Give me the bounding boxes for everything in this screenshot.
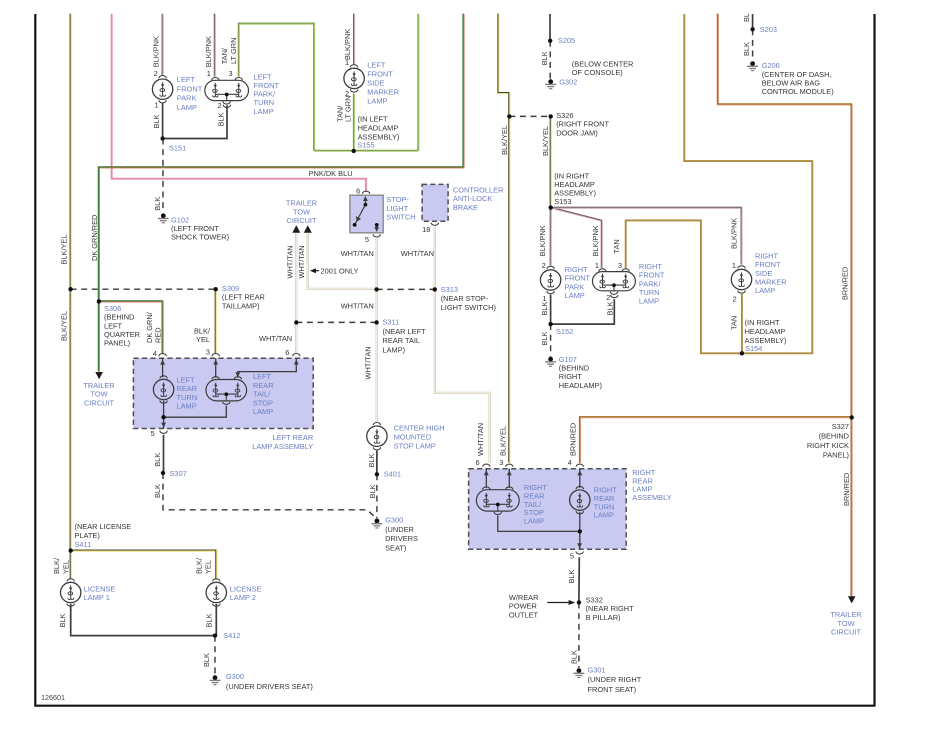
svg-text:SWITCH: SWITCH	[386, 212, 415, 221]
svg-text:LAMP: LAMP	[253, 407, 273, 416]
ground G302	[545, 79, 556, 88]
wire DK GRN/RED S306 down to trailer tow circuit	[97, 301, 100, 372]
svg-text:PANEL): PANEL)	[104, 339, 130, 348]
ground G301	[574, 668, 585, 677]
note G206 CENTER OF DASH	[762, 61, 834, 96]
svg-text:BRN/RED: BRN/RED	[841, 267, 850, 300]
svg-text:(NEAR LICENSE: (NEAR LICENSE	[75, 522, 132, 531]
svg-text:S332: S332	[586, 595, 603, 604]
wire BLK dashed S332 to ground G301	[578, 603, 580, 669]
svg-text:WHT/TAN: WHT/TAN	[476, 423, 485, 456]
wire TAN right front park/turn terminal 3 to S154	[626, 220, 742, 353]
label LEFT FRONT SIDE MARKER LAMP	[367, 61, 399, 106]
svg-text:STOP LAMP: STOP LAMP	[394, 442, 436, 451]
svg-text:YEL: YEL	[204, 560, 213, 574]
label LICENSE LAMP 1	[84, 584, 116, 602]
svg-text:2: 2	[218, 101, 222, 110]
left rear assembly terminal arcs 4 3 6 5	[159, 354, 166, 357]
wire BLK feed to S205	[549, 14, 551, 41]
wire BLK right front lamps to S152	[551, 295, 615, 325]
svg-text:YEL: YEL	[196, 335, 210, 344]
svg-text:(UNDER RIGHT: (UNDER RIGHT	[588, 675, 642, 684]
svg-text:LAMP: LAMP	[254, 107, 274, 116]
svg-text:BLK: BLK	[540, 51, 549, 65]
label RIGHT REAR TURN LAMP	[594, 486, 617, 520]
wire BLK/YEL left feed from top to S411	[69, 13, 72, 550]
note G301 UNDER RIGHT FRONT SEAT	[588, 665, 642, 694]
svg-text:LEFT: LEFT	[177, 75, 196, 84]
svg-text:BRN/RED: BRN/RED	[569, 423, 578, 456]
svg-text:LAMP: LAMP	[639, 297, 659, 306]
left rear assembly internal bus to terminal 5	[164, 406, 227, 417]
svg-text:(BEHIND: (BEHIND	[819, 432, 849, 441]
label STOP-LIGHT SWITCH	[386, 195, 415, 221]
note G300 UNDER DRIVERS SEAT center	[385, 515, 418, 552]
svg-text:3: 3	[206, 348, 210, 357]
splice S313	[433, 287, 437, 291]
label LEFT REAR TURN LAMP	[177, 376, 198, 411]
right rear assembly terminal arcs 6 3 4 5	[483, 464, 490, 467]
svg-text:DRIVERS: DRIVERS	[385, 534, 418, 543]
svg-text:HEADLAMP: HEADLAMP	[745, 327, 786, 336]
splice S311	[374, 320, 378, 324]
svg-text:REAR: REAR	[253, 381, 274, 390]
wire BLK/YEL S326 to S153	[549, 116, 552, 208]
svg-text:BLK: BLK	[368, 484, 377, 498]
wire WHT/TAN trailer tow 2001-only branch	[308, 233, 377, 289]
wire BLK dashed S203 to ground G206	[752, 29, 754, 61]
svg-text:TAIL/: TAIL/	[253, 390, 271, 399]
svg-text:(IN RIGHT: (IN RIGHT	[745, 318, 780, 327]
svg-text:BLK/PNK: BLK/PNK	[152, 36, 161, 67]
note S311 NEAR LEFT REAR TAIL LAMP	[383, 318, 427, 355]
note G107 BEHIND RIGHT HEADLAMP	[559, 355, 602, 390]
svg-text:(NEAR RIGHT: (NEAR RIGHT	[586, 604, 635, 613]
svg-text:G300: G300	[385, 515, 403, 524]
svg-text:PNK/DK BLU: PNK/DK BLU	[309, 169, 353, 178]
node WHT/TAN at S311 link	[294, 320, 298, 324]
label CENTER HIGH MOUNTED STOP LAMP	[394, 423, 445, 450]
note BELOW CENTER OF CONSOLE	[572, 60, 634, 78]
note 2001 ONLY with pointer arrow	[313, 270, 319, 272]
lamp RIGHT REAR TAIL/STOP LAMP	[476, 487, 519, 515]
wire TAN S154 to top feed	[684, 14, 812, 353]
svg-text:TOW: TOW	[837, 619, 854, 628]
svg-text:2: 2	[154, 69, 158, 78]
ground G102	[158, 213, 169, 222]
svg-text:BLK: BLK	[567, 569, 576, 583]
label LICENSE LAMP 2	[230, 584, 262, 602]
wire BLK dashed S307 to ground G300	[163, 473, 374, 516]
svg-text:S307: S307	[170, 469, 187, 478]
svg-text:FRONT SEAT): FRONT SEAT)	[588, 685, 637, 694]
svg-text:BLK: BLK	[367, 453, 376, 467]
splice S205	[548, 39, 552, 43]
svg-text:S152: S152	[556, 327, 573, 336]
svg-text:BLK: BLK	[540, 331, 549, 345]
svg-text:LAMP: LAMP	[177, 103, 197, 112]
svg-text:2001 ONLY: 2001 ONLY	[321, 266, 359, 275]
wire TAN/LT GRN right riser from top	[417, 13, 420, 150]
svg-text:TAILLAMP): TAILLAMP)	[222, 301, 260, 310]
svg-text:4: 4	[568, 458, 572, 467]
dashed splice link S313	[377, 288, 435, 290]
terminal 2 arc left front park/turn	[223, 105, 230, 108]
left rear assembly internal wire terminal 3 to tail/stop left filament	[215, 358, 217, 378]
splice S309	[214, 287, 218, 291]
wire PNK/DK BLU feed to stop-light switch pin 6	[111, 13, 366, 191]
note S332 NEAR RIGHT B PILLAR	[586, 595, 635, 622]
splice S153	[549, 205, 553, 209]
lamp RIGHT REAR TURN LAMP	[570, 486, 590, 513]
svg-text:HEADLAMP): HEADLAMP)	[559, 381, 602, 390]
svg-text:S327: S327	[832, 422, 849, 431]
wire BLK dashed S412 to ground G300 under drivers seat	[214, 636, 216, 675]
arrow trailer tow circuit left pair	[292, 225, 300, 233]
svg-text:WHT/TAN: WHT/TAN	[259, 334, 292, 343]
svg-text:DK GRN/RED: DK GRN/RED	[90, 215, 99, 261]
svg-text:S313: S313	[441, 285, 458, 294]
junction inside left rear assembly	[161, 415, 165, 419]
svg-text:2: 2	[733, 295, 737, 304]
note S205 / G302	[558, 36, 575, 45]
note S327 BEHIND RIGHT KICK PANEL	[807, 422, 849, 459]
right rear assembly internal wire terminal 4 to turn lamp	[579, 469, 581, 549]
svg-text:MOUNTED: MOUNTED	[394, 433, 431, 442]
svg-text:OF CONSOLE): OF CONSOLE)	[572, 68, 623, 77]
svg-text:2: 2	[542, 261, 546, 270]
splice S401	[375, 472, 379, 476]
svg-text:SHOCK TOWER): SHOCK TOWER)	[171, 233, 229, 242]
svg-text:G300: G300	[226, 672, 244, 681]
splice S152	[548, 322, 552, 326]
svg-text:BLK: BLK	[58, 613, 67, 627]
svg-text:3: 3	[618, 261, 622, 270]
label TRAILER TOW CIRCUIT top	[286, 199, 317, 225]
svg-text:S151: S151	[169, 144, 186, 153]
arrow to trailer tow circuit (left)	[95, 372, 103, 379]
left rear assembly internal wire terminal 4 to turn lamp	[163, 358, 164, 428]
svg-text:5: 5	[365, 235, 369, 244]
svg-text:LEFT: LEFT	[367, 61, 386, 70]
wire WHT/TAN trailer tow left branch to left rear terminal 6	[295, 233, 297, 354]
left rear lamp assembly box	[133, 358, 313, 428]
svg-text:CENTER HIGH: CENTER HIGH	[394, 423, 445, 432]
wire TAN/LT GRN side marker terminal 2 to S155	[352, 93, 355, 150]
svg-text:BLK/: BLK/	[52, 557, 61, 574]
svg-text:PLATE): PLATE)	[75, 531, 100, 540]
wire BLK/YEL S309 to left rear terminal 3	[214, 289, 217, 355]
svg-text:(NEAR STOP-: (NEAR STOP-	[441, 294, 489, 303]
wire BRN/RED S327 to right rear terminal 4	[580, 417, 852, 463]
wire BLK feed to S203	[752, 14, 754, 29]
wire BLK/PNK S153 to right front park lamp terminal 2	[549, 207, 552, 266]
svg-text:LAMP 1: LAMP 1	[84, 593, 110, 602]
svg-text:G302: G302	[559, 78, 577, 87]
svg-text:S411: S411	[75, 540, 92, 549]
svg-text:1: 1	[732, 261, 736, 270]
svg-text:WHT/TAN: WHT/TAN	[341, 302, 374, 311]
note S326 RIGHT FRONT DOOR JAM	[556, 111, 609, 137]
svg-text:5: 5	[570, 552, 574, 561]
svg-text:G301: G301	[588, 665, 606, 674]
splice S154	[740, 351, 744, 355]
svg-text:PANEL): PANEL)	[823, 450, 849, 459]
label TRAILER TOW CIRCUIT left	[83, 381, 114, 408]
wire BLK dashed S151 to ground G102	[162, 139, 164, 213]
note S309 LEFT REAR TAILLAMP	[222, 284, 265, 311]
svg-text:BLK/YEL: BLK/YEL	[499, 426, 508, 456]
node WHT/TAN at S313 link	[374, 287, 378, 291]
label TRAILER TOW CIRCUIT right	[830, 610, 861, 637]
svg-text:SIDE: SIDE	[367, 79, 384, 88]
svg-text:S154: S154	[745, 344, 762, 353]
svg-text:LAMP): LAMP)	[383, 346, 406, 355]
svg-text:ASSEMBLY: ASSEMBLY	[632, 493, 671, 502]
controller anti-lock brake box U1	[422, 184, 448, 221]
arrow to trailer tow circuit (right)	[848, 596, 856, 603]
note NEAR LICENSE PLATE S411	[75, 522, 132, 549]
ground G107	[545, 357, 556, 366]
wire BLK/PNK to left front park lamp terminal 2	[161, 13, 164, 75]
svg-text:1: 1	[155, 100, 159, 109]
svg-text:SEAT): SEAT)	[385, 544, 406, 553]
left rear assembly internal wire terminal 6 to tail/stop right filament	[238, 358, 296, 378]
svg-text:DOOR JAM): DOOR JAM)	[556, 128, 597, 137]
svg-text:LAMP: LAMP	[755, 286, 775, 295]
svg-text:(LEFT REAR: (LEFT REAR	[222, 293, 265, 302]
svg-text:S412: S412	[223, 631, 240, 640]
dashed splice link S326	[509, 115, 550, 117]
wire WHT/TAN stop-light switch pin 5 to S311 to center stop lamp	[376, 239, 378, 422]
svg-text:LAMP ASSEMBLY: LAMP ASSEMBLY	[252, 442, 313, 451]
svg-text:BLK/YEL: BLK/YEL	[500, 125, 509, 155]
svg-text:S401: S401	[384, 470, 401, 479]
svg-text:3: 3	[499, 458, 503, 467]
lamp LEFT FRONT SIDE MARKER LAMP	[344, 65, 364, 92]
svg-text:BLK/YEL: BLK/YEL	[59, 311, 68, 341]
controller terminal arc 18	[431, 223, 438, 226]
svg-text:(NEAR LEFT: (NEAR LEFT	[383, 327, 427, 336]
node BLK/YEL riser at S326 link	[507, 114, 511, 118]
wire BLK dashed S401 to ground G300	[376, 474, 378, 518]
lamp LICENSE LAMP 2	[206, 579, 226, 606]
wire BLK left front park lamp 1 / park-turn 2 to S151	[163, 103, 227, 138]
label RIGHT FRONT PARK LAMP	[565, 265, 591, 300]
page top crop	[0, 0, 934, 13]
note G102 LEFT FRONT SHOCK TOWER	[171, 215, 229, 241]
wire WHT/TAN controller pin 18 through S313 to right rear terminal 6	[435, 227, 490, 463]
svg-text:BLK/PNK: BLK/PNK	[591, 225, 600, 256]
svg-text:PARK: PARK	[177, 94, 197, 103]
wire BLK/YEL middle riser to right rear terminal 3	[498, 13, 509, 462]
svg-text:YEL: YEL	[61, 560, 70, 574]
stop-light switch box	[350, 195, 383, 233]
svg-text:BLK: BLK	[153, 484, 162, 498]
svg-text:REAR TAIL: REAR TAIL	[383, 336, 421, 345]
svg-text:S203: S203	[760, 25, 777, 34]
svg-text:WHT/TAN: WHT/TAN	[364, 346, 373, 379]
label RIGHT REAR TAIL/STOP LAMP	[524, 483, 547, 525]
wire label BLK/ YEL left rear term3	[194, 327, 211, 344]
svg-text:BLK: BLK	[153, 197, 162, 211]
splice S412	[213, 633, 217, 637]
svg-text:(UNDER DRIVERS SEAT): (UNDER DRIVERS SEAT)	[226, 682, 313, 691]
svg-text:BLK: BLK	[540, 301, 549, 315]
note IN RIGHT HEADLAMP ASSEMBLY S154	[745, 318, 787, 345]
svg-text:BLK: BLK	[216, 112, 225, 126]
svg-text:LAMP: LAMP	[524, 516, 544, 525]
svg-text:LAMP: LAMP	[565, 291, 585, 300]
svg-text:BLK: BLK	[202, 653, 211, 667]
svg-text:HEADLAMP: HEADLAMP	[358, 124, 399, 133]
lamp LEFT REAR TURN LAMP	[153, 376, 173, 403]
svg-text:LAMP: LAMP	[177, 401, 197, 410]
svg-text:BRAKE: BRAKE	[453, 203, 478, 212]
svg-text:3: 3	[229, 69, 233, 78]
svg-text:18: 18	[422, 225, 430, 234]
terminal 2 arc right front park/turn	[611, 295, 618, 298]
right rear lamp assembly box	[469, 469, 627, 549]
svg-text:LAMP: LAMP	[367, 97, 387, 106]
svg-text:RIGHT KICK: RIGHT KICK	[807, 441, 849, 450]
svg-text:126601: 126601	[41, 693, 65, 702]
svg-text:WHT/TAN: WHT/TAN	[297, 245, 306, 278]
stop-light switch S1 internals	[355, 197, 377, 230]
lamp RIGHT FRONT PARK LAMP	[540, 266, 560, 293]
svg-text:LT GRN: LT GRN	[229, 38, 238, 64]
label LEFT REAR LAMP ASSEMBLY	[252, 433, 313, 451]
right rear assembly internal wires terminals 6 and 3	[486, 469, 509, 488]
svg-text:6: 6	[475, 458, 479, 467]
junction inside right rear assembly	[578, 529, 582, 533]
svg-text:S205: S205	[558, 36, 575, 45]
splice S327	[850, 415, 854, 419]
svg-text:BLK: BLK	[152, 114, 161, 128]
svg-text:LT GRN: LT GRN	[343, 96, 352, 122]
label LEFT FRONT PARK/TURN LAMP	[254, 72, 280, 115]
lamp LEFT FRONT PARK LAMP	[152, 76, 172, 103]
svg-text:WHT/TAN: WHT/TAN	[401, 249, 434, 258]
svg-text:BLK/: BLK/	[194, 557, 203, 574]
svg-text:TAN: TAN	[730, 316, 739, 330]
svg-text:S311: S311	[383, 318, 400, 327]
svg-text:TRAILER: TRAILER	[83, 381, 114, 390]
svg-text:TOW: TOW	[90, 390, 107, 399]
wire BLK/PNK to left front side marker terminal 1	[353, 13, 356, 64]
svg-text:STOP: STOP	[253, 398, 273, 407]
splice S155	[352, 149, 356, 153]
svg-text:TAN/: TAN/	[220, 47, 229, 64]
svg-text:S155: S155	[357, 141, 374, 150]
svg-text:BLK/PNK: BLK/PNK	[538, 225, 547, 256]
label RIGHT REAR LAMP ASSEMBLY	[632, 468, 671, 502]
svg-text:1: 1	[595, 261, 599, 270]
lamp RIGHT FRONT SIDE MARKER LAMP	[731, 266, 751, 293]
label RIGHT FRONT SIDE MARKER LAMP	[755, 252, 787, 295]
svg-text:(IN LEFT: (IN LEFT	[358, 115, 388, 124]
dashed splice link S311	[296, 321, 376, 323]
svg-text:BLK/PNK: BLK/PNK	[730, 218, 739, 249]
wire TAN/LT GRN from park/turn terminal 3 over to S155 riser	[238, 23, 314, 151]
lamp RIGHT FRONT PARK/TURN LAMP	[593, 269, 636, 295]
svg-text:BLK: BLK	[205, 613, 214, 627]
label LEFT FRONT PARK LAMP	[177, 75, 203, 112]
label RIGHT FRONT PARK/TURN LAMP	[639, 262, 665, 305]
svg-text:BLK: BLK	[570, 650, 579, 664]
svg-text:2: 2	[606, 293, 610, 302]
svg-text:LEFT REAR: LEFT REAR	[273, 433, 314, 442]
svg-text:BLK: BLK	[606, 301, 615, 315]
svg-text:CIRCUIT: CIRCUIT	[84, 398, 114, 407]
wire BLK dashed S205 to ground G302	[549, 41, 551, 79]
svg-text:TRAILER: TRAILER	[830, 610, 861, 619]
svg-text:LAMP 2: LAMP 2	[230, 593, 256, 602]
svg-text:FRONT: FRONT	[177, 84, 203, 93]
splice S306	[97, 299, 101, 303]
svg-text:LEFT: LEFT	[253, 372, 272, 381]
wire BLK license lamps to S412	[71, 604, 217, 636]
svg-text:S153: S153	[554, 197, 571, 206]
label LEFT REAR TAIL/STOP LAMP	[253, 372, 274, 416]
svg-text:4: 4	[153, 349, 157, 358]
svg-text:6: 6	[356, 187, 360, 196]
dashed splice link S309	[71, 288, 216, 290]
svg-text:CIRCUIT: CIRCUIT	[287, 216, 317, 225]
svg-text:1: 1	[345, 58, 349, 67]
note S306 BEHIND LEFT QUARTER PANEL	[104, 304, 140, 347]
note IN RIGHT HEADLAMP ASSEMBLY S153	[554, 171, 596, 206]
wire BRN/RED feed from top to S327 and trailer tow circuit	[717, 13, 851, 596]
lamp LEFT FRONT PARK/TURN LAMP	[205, 77, 249, 104]
wire BLK dashed S152 to ground G107	[550, 324, 552, 357]
note W/REAR POWER OUTLET	[509, 593, 539, 619]
stop-light switch terminal arcs 6 5	[362, 191, 369, 194]
svg-text:1: 1	[207, 69, 211, 78]
wire BLK center stop lamp to S401	[376, 451, 378, 475]
ground G206	[747, 61, 758, 70]
svg-text:B PILLAR): B PILLAR)	[586, 613, 621, 622]
splice S307	[161, 471, 165, 475]
wire BLK/PNK S153 to right front park/turn terminal 1	[550, 207, 602, 268]
svg-text:OUTLET: OUTLET	[509, 610, 539, 619]
svg-text:BLK/PNK: BLK/PNK	[343, 29, 352, 60]
ground G300 under drivers seat (license)	[210, 675, 221, 684]
splice S332	[577, 600, 581, 604]
svg-text:BLK/YEL: BLK/YEL	[541, 126, 550, 156]
wire TAN side marker terminal 2 down to S154	[741, 294, 743, 353]
splice S151	[160, 136, 164, 140]
ground G300 under drivers seat (center)	[372, 519, 383, 528]
wire DK GRN/RED feed from top to S306	[98, 13, 463, 301]
svg-text:LIGHT SWITCH): LIGHT SWITCH)	[441, 303, 496, 312]
svg-text:BLK: BLK	[742, 42, 751, 56]
wire BLK/YEL S411 to license lamps	[70, 550, 216, 579]
wire BLK left rear terminal 5 to S307	[163, 435, 165, 473]
svg-text:CIRCUIT: CIRCUIT	[831, 628, 861, 637]
svg-text:(UNDER: (UNDER	[385, 525, 414, 534]
svg-text:BLK: BLK	[153, 453, 162, 467]
svg-text:WHT/TAN: WHT/TAN	[286, 245, 295, 278]
note G300 UNDER DRIVERS SEAT license	[226, 672, 313, 691]
svg-text:6: 6	[285, 348, 289, 357]
label CONTROLLER ANTI-LOCK BRAKE	[453, 186, 504, 212]
wire TAN/LT GRN S155 horizontal run	[314, 149, 419, 152]
svg-text:RED: RED	[153, 327, 162, 343]
svg-text:WHT/TAN: WHT/TAN	[341, 249, 374, 258]
note IN LEFT HEADLAMP ASSEMBLY S155	[358, 115, 400, 142]
svg-text:1: 1	[543, 294, 547, 303]
